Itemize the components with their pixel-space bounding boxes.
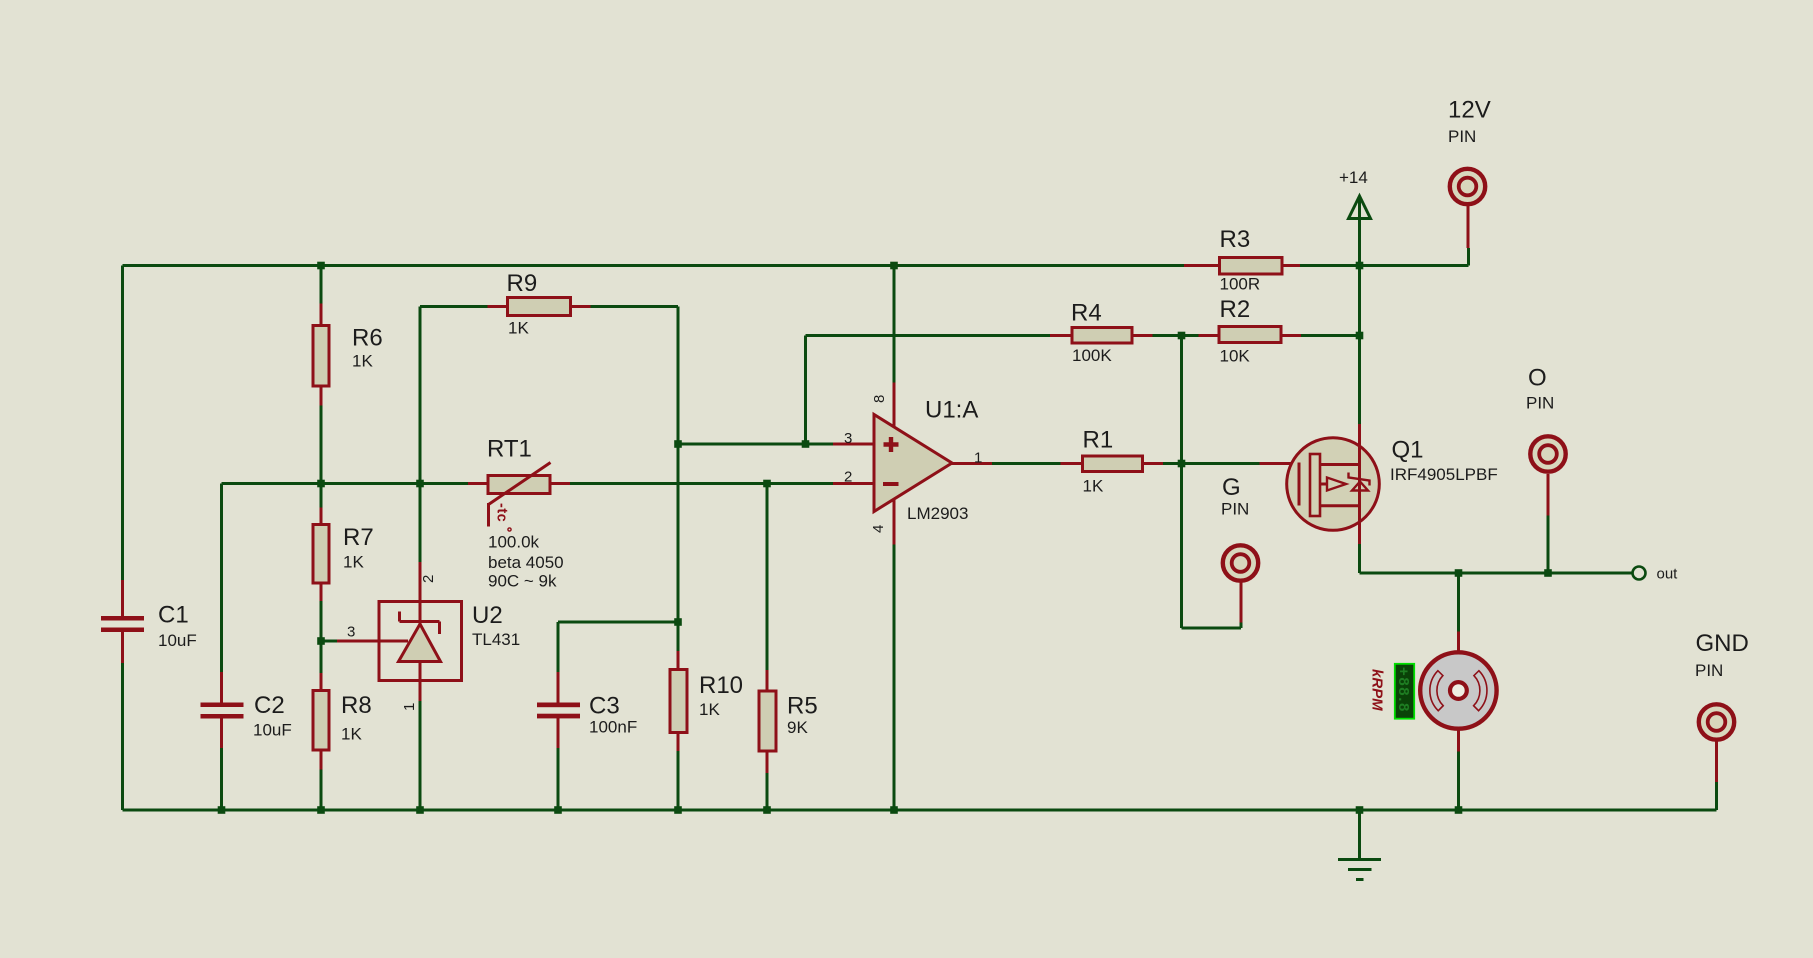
node R4 R2 [1178,332,1186,340]
resistor R3 [1184,258,1300,275]
svg-text:C3: C3 [589,693,620,720]
svg-text:9K: 9K [787,718,808,737]
wire R1 output rail [992,462,1260,465]
svg-text:R7: R7 [343,524,374,551]
node R2 right [1356,332,1364,340]
svg-text:beta 4050: beta 4050 [488,553,564,572]
wire bottom ground bus [123,809,1717,812]
node bus ground [1356,806,1364,814]
wire op-amp pin4 [893,545,896,811]
capacitor C3 [537,672,580,748]
svg-text:R9: R9 [507,270,538,297]
wire GND pin drop [1715,782,1718,810]
svg-text:1: 1 [401,703,418,711]
svg-text:GND: GND [1696,630,1749,657]
svg-text:PIN: PIN [1695,661,1723,680]
wire O pin drop [1547,516,1550,574]
node bus C3 [554,806,562,814]
op-amp U1 [833,383,992,545]
svg-text:1K: 1K [1083,477,1104,496]
svg-text:G: G [1222,474,1241,501]
capacitor C1 [101,580,144,663]
terminal GND PIN [1699,704,1734,782]
ground [1338,860,1381,880]
svg-text:3: 3 [844,430,852,447]
wire Q1 source to out [1360,544,1633,573]
wire R6 branch [320,266,323,484]
node out O [1544,569,1552,577]
svg-text:R4: R4 [1071,300,1102,327]
svg-text:IRF4905LPBF: IRF4905LPBF [1390,465,1498,484]
resistor R6 [313,304,329,406]
resistor R5 [759,670,776,773]
node bus motor [1455,806,1463,814]
svg-text:LM2903: LM2903 [907,504,968,523]
power +14 arrow [1349,196,1371,219]
svg-text:RT1: RT1 [487,436,532,463]
wire +14 vertical [1358,196,1361,424]
svg-text:8: 8 [871,395,888,403]
node R6 R7 [317,480,325,488]
svg-text:-tc: -tc [494,503,510,522]
motor M1 [1420,632,1496,752]
resistor R10 [670,651,687,751]
svg-text:C1: C1 [158,602,189,629]
svg-text:R6: R6 [352,325,383,352]
svg-text:1: 1 [974,450,982,467]
svg-text:PIN: PIN [1448,127,1476,146]
svg-text:R2: R2 [1220,296,1251,323]
svg-text:100K: 100K [1072,346,1112,365]
svg-text:PIN: PIN [1526,394,1554,413]
svg-text:10uF: 10uF [253,721,292,740]
svg-text:O: O [1528,365,1547,392]
svg-text:PIN: PIN [1221,500,1249,519]
svg-text:2: 2 [420,575,437,583]
resistor R4 [1050,328,1153,344]
capacitor C2 [201,672,244,748]
node bus U2 [416,806,424,814]
wire top bus [123,248,1469,266]
wire left vertical to C1 [121,266,124,811]
svg-text:R5: R5 [787,693,818,720]
thermistor RT1 [468,463,570,527]
svg-text:+14: +14 [1339,168,1368,187]
svg-text:100.0k: 100.0k [488,533,540,552]
svg-text:+88.8: +88.8 [1395,667,1412,713]
svg-text:U1:A: U1:A [925,397,978,424]
terminal O PIN [1530,436,1565,515]
svg-text:10uF: 10uF [158,631,197,650]
svg-text:U2: U2 [472,602,503,629]
resistor R1 [1061,456,1164,472]
node bus C2 [218,806,226,814]
resistor R7 [313,508,329,602]
svg-text:4: 4 [870,525,887,533]
node U2 rail [416,480,424,488]
svg-text:100R: 100R [1220,275,1261,294]
svg-text:2: 2 [844,469,852,486]
wire C3 link [558,622,678,810]
node bus pin4 [890,806,898,814]
svg-text:kRPM: kRPM [1369,669,1386,711]
wire R7 R8 chain [320,484,323,811]
node pin8 top [890,262,898,270]
resistor R9 [488,298,591,316]
svg-text:100nF: 100nF [589,718,637,737]
node out motor [1455,569,1463,577]
wire feedback vertical [1182,336,1242,629]
wire R9 rail [420,307,678,623]
svg-text:R10: R10 [699,672,743,699]
wire U2 pin3 link [321,640,337,643]
terminal G PIN [1223,545,1258,622]
wire op-amp pin8 [893,266,896,383]
terminal out [1633,566,1679,583]
svg-text:R1: R1 [1083,427,1114,454]
terminal 12V PIN [1450,169,1485,248]
svg-text:Q1: Q1 [1392,437,1424,464]
resistor R8 [313,673,329,770]
node pin3 left [674,440,682,448]
svg-text:1K: 1K [352,352,373,371]
svg-text:TL431: TL431 [472,630,520,649]
svg-text:out: out [1657,566,1679,583]
wire C2 branch [220,484,223,811]
marker tc [494,503,512,531]
svg-text:1K: 1K [341,725,362,744]
svg-text:90C ~ 9k: 90C ~ 9k [488,572,557,591]
svg-text:R8: R8 [341,692,372,719]
node bus R5 [763,806,771,814]
svg-text:1K: 1K [343,553,364,572]
svg-text:C2: C2 [254,692,285,719]
wire mid rail y=483.5 [222,482,834,485]
node +14 bus [1356,262,1364,270]
wire R5 branch [766,484,769,811]
wire R10 branch [677,622,680,810]
node R7 R8 [317,637,325,645]
wire op-amp pin3 rail [678,443,833,446]
svg-text:R3: R3 [1220,226,1251,253]
node bus R8 [317,806,325,814]
transistor Q1 [1260,424,1380,544]
wire noninverting to R4 [806,336,1360,445]
node bus R10 [674,806,682,814]
svg-text:1K: 1K [508,319,529,338]
svg-text:1K: 1K [699,700,720,719]
node R1 out [1178,460,1186,468]
svg-text:10K: 10K [1220,347,1251,366]
node R5 rail [763,480,771,488]
node pin3 up [802,440,810,448]
wire U2 vertical [419,307,422,811]
wire motor stubs [1457,573,1460,810]
resistor R2 [1199,327,1302,343]
node R6 top [317,262,325,270]
svg-text:12V: 12V [1448,97,1491,124]
node C3 R10 [674,618,682,626]
wire ground stem [1358,810,1361,860]
display kRPM [1369,664,1415,719]
svg-text:3: 3 [347,624,355,641]
TL431 U2 [337,562,462,701]
